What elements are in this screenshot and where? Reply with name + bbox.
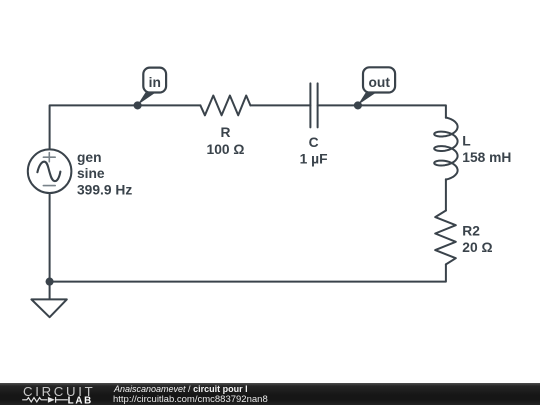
svg-text:158 mH: 158 mH <box>462 150 511 165</box>
voltage source minus sign <box>43 185 55 187</box>
capacitor C plates <box>310 83 317 127</box>
wire C to top-right corner and down to inductor <box>318 105 446 117</box>
wire top-left horizontal (source top to resistor R) <box>50 105 201 149</box>
node in flag <box>138 68 167 105</box>
svg-text:out: out <box>368 75 390 90</box>
resistor R2 label: R2 / 20 ohm <box>462 223 492 255</box>
voltage source plus sign <box>43 153 55 162</box>
svg-text:399.9 Hz: 399.9 Hz <box>77 182 132 197</box>
svg-text:100 Ω: 100 Ω <box>207 142 245 157</box>
node in dot <box>134 101 142 109</box>
resistor R2 <box>435 211 456 265</box>
svg-text:L: L <box>462 134 470 149</box>
svg-text:sine: sine <box>77 166 105 181</box>
ground symbol <box>31 282 66 318</box>
footer bar <box>0 383 540 405</box>
node out flag <box>358 67 395 105</box>
resistor R <box>200 96 250 116</box>
voltage source sine wave <box>37 162 60 181</box>
inductor L label: L / 158 mH <box>462 134 511 165</box>
svg-text:gen: gen <box>77 150 102 165</box>
logo resistor-diode squiggle <box>22 397 68 403</box>
voltage source gen circle <box>28 149 72 193</box>
svg-text:R2: R2 <box>462 223 480 238</box>
svg-text:20 Ω: 20 Ω <box>462 240 492 255</box>
svg-text:LAB: LAB <box>68 395 93 405</box>
wire inductor to resistor R2 <box>445 179 447 210</box>
source name label: gen / sine / 399.9 Hz <box>77 150 132 197</box>
svg-text:C: C <box>309 135 319 150</box>
svg-text:R: R <box>221 125 231 140</box>
capacitor C label: C / 1 uF <box>300 135 328 167</box>
wire R to capacitor C <box>250 104 310 106</box>
CircuitLab logo <box>0 383 110 405</box>
svg-text:1 µF: 1 µF <box>300 152 328 167</box>
ground node junction dot <box>46 278 54 286</box>
inductor L coil <box>434 118 457 180</box>
footer url text <box>113 394 268 405</box>
resistor R label: R / 100 ohm <box>207 125 245 157</box>
wire source bottom to ground node <box>49 193 51 282</box>
node out dot <box>354 101 362 109</box>
svg-text:in: in <box>149 75 161 90</box>
footer title text <box>114 384 248 394</box>
wire R2 to bottom-right corner and along bottom to ground node <box>50 264 446 281</box>
